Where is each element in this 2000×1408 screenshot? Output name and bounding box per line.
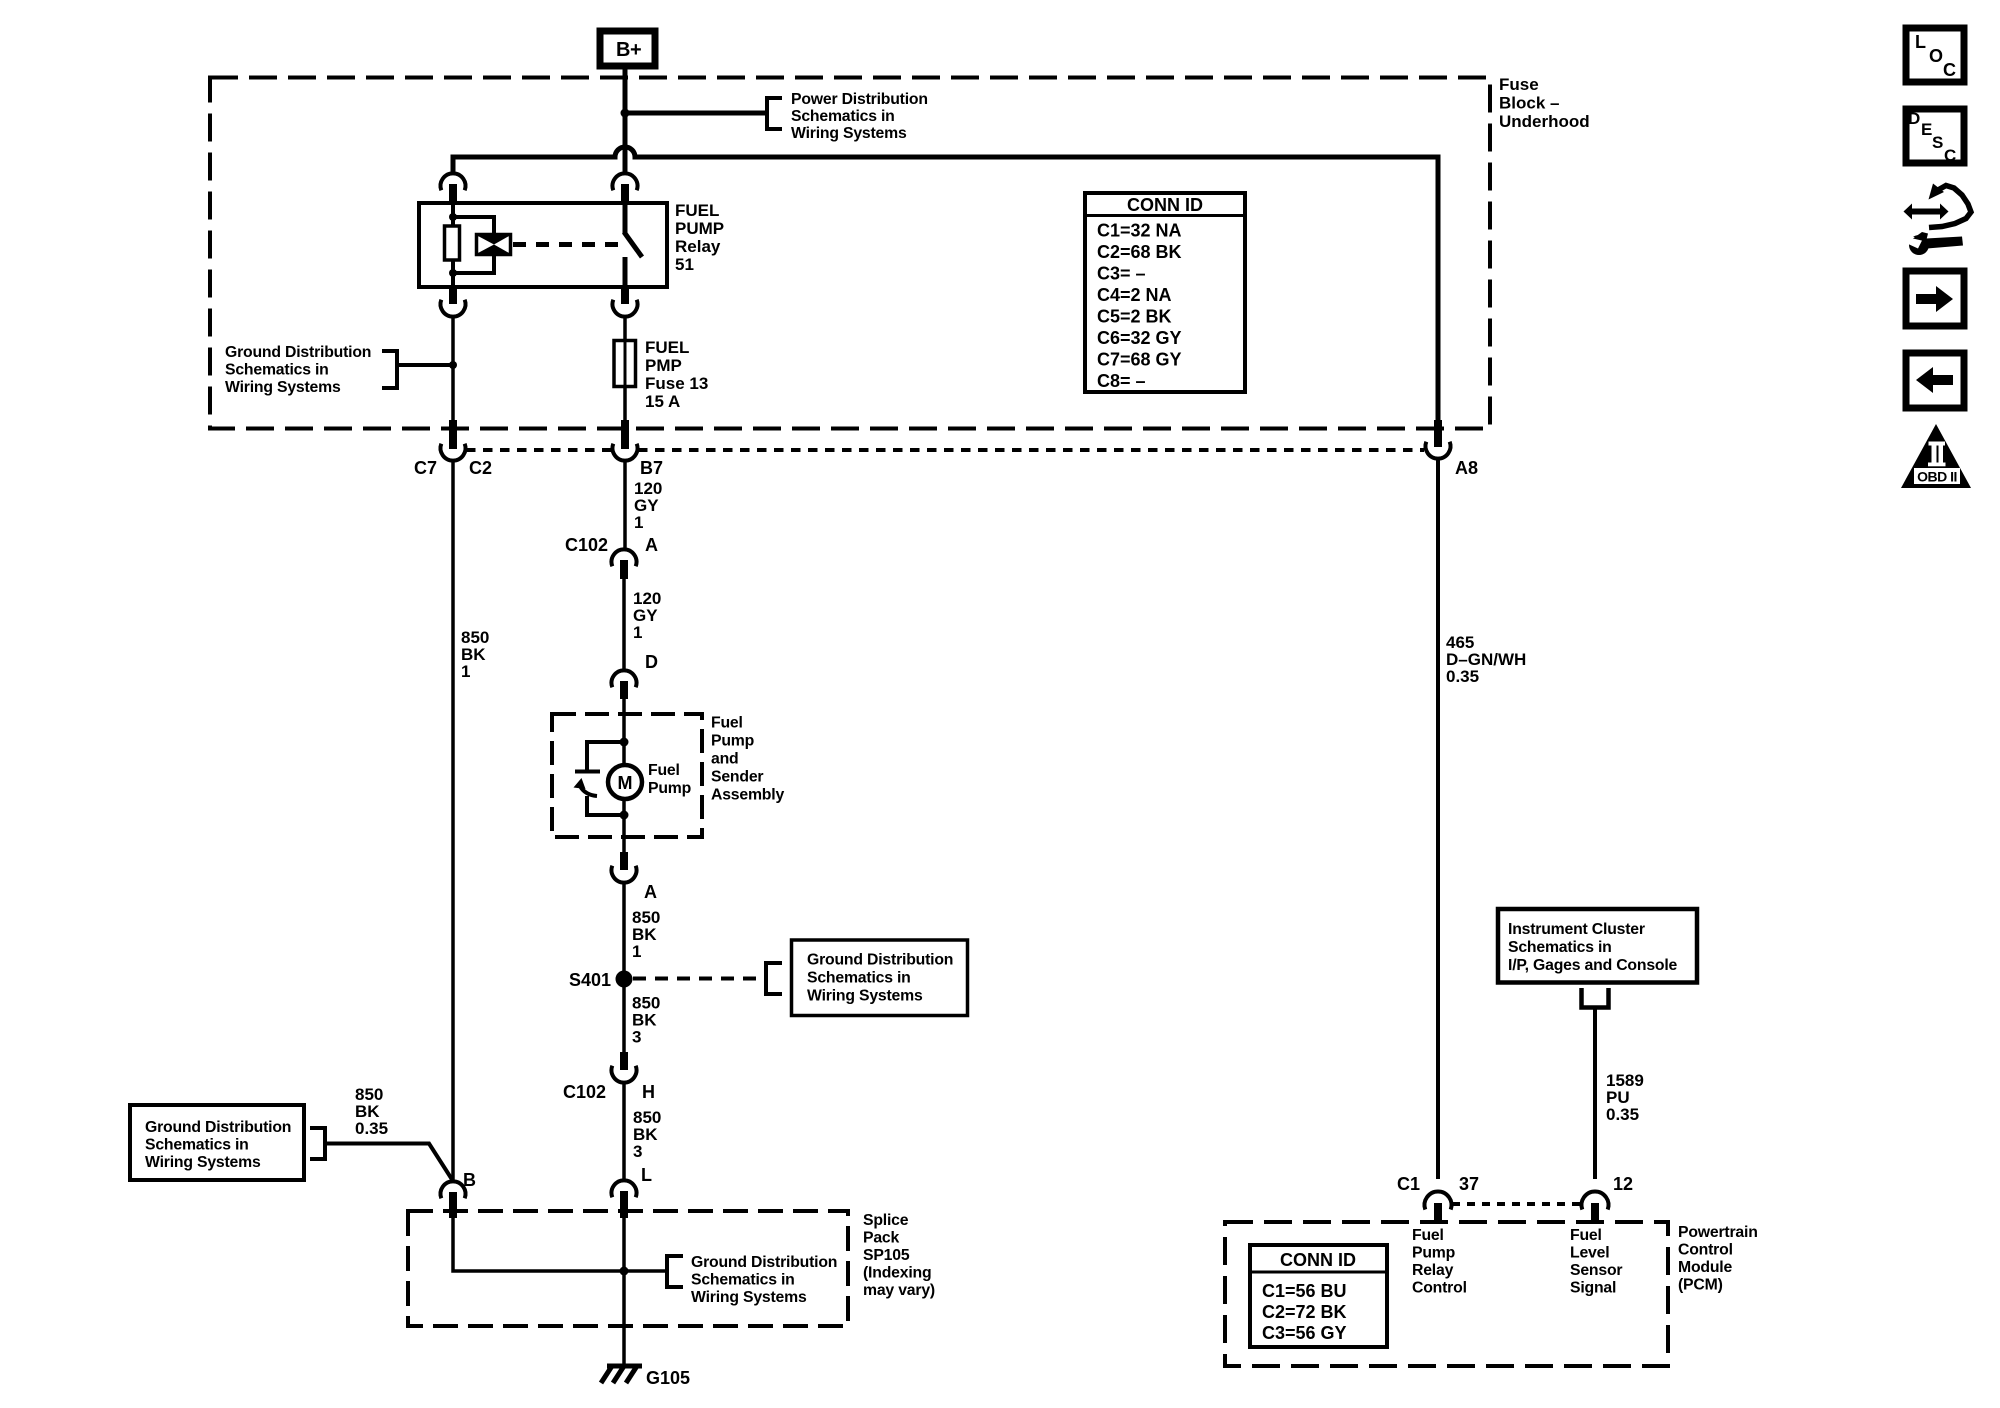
node ground distribution tap (449, 361, 457, 369)
ground G105 symbol (601, 1366, 642, 1383)
svg-text:Pack: Pack (863, 1230, 900, 1247)
svg-text:Pump: Pump (648, 780, 691, 797)
label 465 D-GN/WH 0.35 (1446, 633, 1526, 686)
svg-text:Fuse: Fuse (1499, 75, 1539, 94)
relay winding box with bowtie (477, 235, 511, 255)
svg-text:S401: S401 (569, 970, 611, 990)
svg-text:A8: A8 (1455, 458, 1478, 478)
connector relay pin 2 top (female arc) (613, 173, 638, 190)
svg-text:C2=72 BK: C2=72 BK (1262, 1302, 1347, 1322)
pin relay coil bottom (449, 287, 457, 304)
svg-text:SP105: SP105 (863, 1247, 910, 1264)
svg-text:may vary): may vary) (863, 1282, 935, 1299)
svg-text:L: L (641, 1165, 652, 1185)
icon forward arrow box (1906, 271, 1964, 326)
label FUEL PUMP Relay 51 (675, 201, 724, 274)
label 850 BK 1 (below A) (632, 908, 660, 961)
box Instrument Cluster (1498, 909, 1697, 983)
label Ground Distribution Schematics in Wiring Systems (S401) (807, 952, 953, 1005)
svg-text:C5=2 BK: C5=2 BK (1097, 307, 1172, 327)
connector D fuel pump (female arc) (612, 670, 637, 687)
fuel pump and sender assembly dashed box (552, 714, 702, 837)
wire relay coil top lead (451, 203, 455, 226)
svg-text:1: 1 (632, 942, 641, 961)
relay switch blade (624, 232, 642, 257)
wire bracket to B connector (325, 1144, 453, 1182)
svg-text:Power Distribution: Power Distribution (791, 91, 928, 108)
svg-text:B7: B7 (640, 458, 663, 478)
svg-text:Schematics in: Schematics in (791, 108, 895, 125)
svg-text:Module: Module (1678, 1259, 1732, 1276)
pin D fuel pump (620, 681, 628, 699)
label 120 GY 1 (lower) (633, 589, 661, 642)
svg-text:Fuel: Fuel (648, 762, 680, 779)
svg-text:A: A (645, 535, 658, 555)
label Ground Distribution Schematics in Wiring Systems (bottom left) (145, 1119, 291, 1171)
svg-text:CONN ID: CONN ID (1280, 1250, 1356, 1270)
label 850 BK 0.35 (355, 1085, 388, 1138)
connector C102-H (female arc) (612, 1066, 637, 1083)
svg-text:51: 51 (675, 255, 694, 274)
svg-text:A: A (644, 882, 657, 902)
svg-text:PMP: PMP (645, 356, 682, 375)
wire C102-H to L (622, 1083, 626, 1181)
svg-text:FUEL: FUEL (645, 338, 689, 357)
pin 12 PCM (1591, 1203, 1599, 1224)
wire main horizontal B+ bus with hop over vertical (453, 147, 1438, 421)
connector C7/C2 (female arc) (441, 444, 466, 461)
pin A sender assembly (620, 852, 628, 870)
CONN ID table PCM (1250, 1245, 1387, 1347)
label Instrument Cluster Schematics in I/P Gages and Console (1508, 921, 1678, 974)
label 850 BK 3 (below S401) (632, 994, 660, 1047)
label Fuel Pump (648, 762, 691, 797)
pin relay switch top (621, 184, 629, 203)
svg-text:PUMP: PUMP (675, 219, 724, 238)
wire to ground distribution bracket (397, 363, 453, 367)
pin B7 (621, 420, 629, 449)
bracket S401 ground distribution (766, 963, 782, 994)
svg-text:C2: C2 (469, 458, 492, 478)
capacitor plate (575, 770, 600, 774)
svg-text:Block –: Block – (1499, 94, 1559, 113)
connector A8 (female arc) (1425, 442, 1450, 459)
label 850 BK 3 (above L) (633, 1108, 661, 1161)
svg-text:Level: Level (1570, 1245, 1609, 1262)
label Power Distribution Schematics in Wiring Systems (791, 91, 928, 142)
bracket splice pack ground distribution (667, 1256, 683, 1287)
icon LOC box (1906, 28, 1964, 82)
svg-text:and: and (711, 751, 738, 768)
label FUEL PMP Fuse 13 15 A (645, 338, 708, 411)
fuse FUEL PMP Fuse 13 (614, 341, 636, 387)
wire instrument cluster to pin 12 (1593, 1007, 1597, 1179)
motor fuel pump (M) (608, 765, 642, 799)
svg-text:1: 1 (633, 623, 642, 642)
wire dotted connector row left (466, 448, 611, 452)
wire B+ stem (623, 66, 628, 174)
svg-text:Control: Control (1412, 1280, 1467, 1297)
wire through fuse (624, 340, 627, 387)
wire capacitor branch bottom (587, 796, 624, 815)
wire left drop inside fuse block (451, 317, 455, 429)
pin A8 (1434, 420, 1442, 447)
svg-text:C3=56 GY: C3=56 GY (1262, 1323, 1347, 1343)
svg-text:3: 3 (632, 1028, 641, 1047)
wire C102-A to D (622, 579, 626, 670)
svg-text:Ground Distribution: Ground Distribution (145, 1119, 291, 1136)
svg-text:Schematics in: Schematics in (1508, 939, 1612, 956)
svg-text:Underhood: Underhood (1499, 112, 1590, 131)
resistor relay coil (445, 226, 460, 260)
wire switch to fuse (623, 317, 627, 429)
svg-text:FUEL: FUEL (675, 201, 719, 220)
svg-text:C2=68 BK: C2=68 BK (1097, 242, 1182, 262)
svg-text:15 A: 15 A (645, 392, 680, 411)
bracket Power Distribution (767, 98, 782, 129)
svg-text:D: D (1908, 109, 1920, 128)
svg-text:C1=32 NA: C1=32 NA (1097, 221, 1182, 241)
svg-text:C6=32 GY: C6=32 GY (1097, 328, 1182, 348)
label Fuel Pump Relay Control (1412, 1227, 1467, 1297)
svg-text:Wiring Systems: Wiring Systems (145, 1154, 261, 1171)
box Ground Distribution (bottom left) (130, 1105, 304, 1180)
relay box outline (419, 203, 667, 287)
wire L leg through splice pack to ground (622, 1218, 626, 1366)
svg-text:(PCM): (PCM) (1678, 1277, 1723, 1294)
svg-text:G105: G105 (646, 1368, 690, 1388)
wire left branch C2 to B (451, 460, 455, 1181)
svg-text:CONN ID: CONN ID (1127, 195, 1203, 215)
pin C7/C2 (449, 420, 457, 449)
svg-text:OBD II: OBD II (1917, 469, 1957, 485)
B+ power feed symbol (600, 31, 655, 66)
node fuel pump bottom junction (620, 811, 629, 820)
svg-text:37: 37 (1459, 1174, 1479, 1194)
connector B7 (female arc) (613, 444, 638, 461)
svg-text:C3= –: C3= – (1097, 264, 1146, 284)
wire A to S401 (622, 883, 626, 1053)
splice pack SP105 dashed box (408, 1211, 848, 1326)
pin C102-A (620, 560, 628, 579)
svg-text:I/P, Gages and Console: I/P, Gages and Console (1508, 957, 1678, 974)
svg-text:Sender: Sender (711, 769, 763, 786)
svg-text:H: H (642, 1082, 655, 1102)
wire dashed link S401 to bracket (633, 977, 766, 981)
wire capacitor branch top (587, 742, 624, 771)
pin L splice pack (620, 1191, 628, 1218)
icon OBD II triangle (1901, 424, 1971, 488)
svg-text:S: S (1932, 133, 1943, 152)
connector A sender assembly (female arc) (612, 866, 637, 883)
svg-text:O: O (1929, 46, 1943, 66)
svg-text:Signal: Signal (1570, 1280, 1616, 1297)
svg-text:C8= –: C8= – (1097, 371, 1146, 391)
svg-text:Assembly: Assembly (711, 787, 784, 804)
connector B splice pack (female arc) (441, 1181, 466, 1198)
splice S401 (616, 971, 633, 988)
wire relay coil bottom lead (451, 260, 455, 287)
svg-text:Ground Distribution: Ground Distribution (807, 952, 953, 969)
svg-text:Pump: Pump (711, 733, 754, 750)
pin B splice pack (449, 1192, 457, 1218)
svg-text:C: C (1944, 146, 1956, 165)
label Splice Pack SP105 (Indexing may vary) (863, 1212, 935, 1299)
fuse block underhood dashed box (210, 78, 1490, 429)
svg-text:Schematics in: Schematics in (691, 1272, 795, 1289)
connector relay pin 1 bottom (female arc) (441, 300, 466, 317)
svg-text:Schematics in: Schematics in (807, 970, 911, 987)
label Fuel Pump and Sender Assembly (711, 715, 784, 804)
bracket below instrument cluster box (1582, 988, 1609, 1008)
wire relay switch lower contact (623, 257, 628, 287)
wire relay actuator dashed link (513, 242, 618, 247)
bracket Ground Distribution left (382, 351, 397, 388)
label 1589 PU 0.35 (1606, 1071, 1644, 1124)
pin relay coil top (449, 184, 457, 203)
wire dotted connector row right (638, 448, 1424, 452)
connector 12 PCM (female arc) (1581, 1192, 1608, 1210)
svg-text:Fuel: Fuel (1570, 1227, 1602, 1244)
connector C1-37 PCM (female arc) (1425, 1192, 1452, 1210)
connector relay pin 1 top (female arc) (441, 173, 466, 190)
pin C1-37 PCM (1434, 1203, 1442, 1224)
connector L splice pack (female arc) (612, 1180, 637, 1197)
svg-text:Relay: Relay (1412, 1262, 1454, 1279)
svg-text:0.35: 0.35 (1606, 1105, 1639, 1124)
svg-text:Schematics in: Schematics in (225, 362, 329, 379)
capacitor curved plate with arrow (574, 778, 598, 796)
node coil top junction (449, 213, 457, 221)
powertrain control module dashed box (1225, 1222, 1668, 1366)
wire relay switch upper contact (623, 203, 628, 233)
fuse block label (1499, 75, 1590, 131)
svg-text:(Indexing: (Indexing (863, 1265, 931, 1282)
svg-text:Powertrain: Powertrain (1678, 1224, 1758, 1241)
svg-text:B+: B+ (616, 39, 641, 61)
svg-text:M: M (618, 773, 633, 793)
wire branch to Power Distribution bracket (625, 111, 767, 116)
svg-text:Fuse 13: Fuse 13 (645, 374, 708, 393)
bracket bottom left box (310, 1128, 325, 1159)
label Fuel Level Sensor Signal (1570, 1227, 1622, 1297)
svg-text:C102: C102 (565, 535, 608, 555)
connector relay pin 2 bottom (female arc) (613, 300, 638, 317)
svg-text:Pump: Pump (1412, 1245, 1455, 1262)
svg-text:C4=2 NA: C4=2 NA (1097, 285, 1172, 305)
label Powertrain Control Module (PCM) (1678, 1224, 1758, 1294)
svg-text:E: E (1921, 120, 1932, 139)
wire A8 drop to PCM (1436, 459, 1440, 1180)
wire D to fuel pump (622, 699, 626, 765)
svg-text:Ground Distribution: Ground Distribution (225, 344, 371, 361)
label 120 GY 1 (upper) (634, 479, 662, 532)
svg-text:0.35: 0.35 (1446, 667, 1479, 686)
svg-text:Wiring Systems: Wiring Systems (807, 988, 923, 1005)
wire B leg inside splice pack (453, 1218, 624, 1271)
connector C102-A (female arc) (612, 549, 637, 566)
svg-text:Fuel: Fuel (711, 715, 743, 732)
icon diagnostic wrench with arrows (1904, 184, 1972, 256)
svg-text:Schematics in: Schematics in (145, 1137, 249, 1154)
wire dotted link C1-37 to 12 (1452, 1202, 1581, 1206)
svg-text:Wiring Systems: Wiring Systems (225, 379, 341, 396)
label 850 BK 1 (left branch) (461, 628, 489, 681)
svg-text:Ground Distribution: Ground Distribution (691, 1254, 837, 1271)
svg-text:1: 1 (461, 662, 470, 681)
svg-text:C7=68 GY: C7=68 GY (1097, 350, 1182, 370)
node junction at B+ branch (621, 109, 630, 118)
svg-text:C7: C7 (414, 458, 437, 478)
CONN ID table fuse block (1085, 193, 1245, 392)
svg-text:Sensor: Sensor (1570, 1262, 1622, 1279)
svg-text:0.35: 0.35 (355, 1119, 388, 1138)
svg-text:Instrument Cluster: Instrument Cluster (1508, 921, 1645, 938)
wire B7 to C102-A (623, 460, 627, 550)
pin C102-H (620, 1052, 628, 1070)
node splice junction (620, 1267, 629, 1276)
box Ground Distribution (S401) (792, 940, 968, 1016)
svg-text:L: L (1915, 32, 1926, 52)
svg-text:C102: C102 (563, 1082, 606, 1102)
node fuel pump top junction (620, 738, 629, 747)
svg-text:Relay: Relay (675, 237, 721, 256)
svg-text:C1: C1 (1397, 1174, 1420, 1194)
icon DESC box (1906, 109, 1964, 165)
svg-text:C: C (1943, 60, 1956, 80)
svg-text:12: 12 (1613, 1174, 1633, 1194)
svg-text:Fuel: Fuel (1412, 1227, 1444, 1244)
svg-text:C1=56 BU: C1=56 BU (1262, 1281, 1347, 1301)
svg-text:3: 3 (633, 1142, 642, 1161)
svg-text:Wiring Systems: Wiring Systems (691, 1289, 807, 1306)
svg-text:1: 1 (634, 513, 643, 532)
svg-text:D: D (645, 652, 658, 672)
svg-text:Control: Control (1678, 1242, 1733, 1259)
svg-text:Wiring Systems: Wiring Systems (791, 125, 907, 142)
wire coil parallel loop (453, 217, 494, 273)
wire fuel pump to connector A (622, 799, 626, 852)
node coil bottom junction (449, 269, 457, 277)
wire splice to bracket (624, 1269, 667, 1273)
label Ground Distribution Schematics in Wiring Systems (splice pack) (691, 1254, 837, 1306)
svg-text:Splice: Splice (863, 1212, 909, 1229)
pin relay switch bottom (621, 287, 629, 304)
icon back arrow box (1906, 353, 1964, 408)
label Ground Distribution Schematics in Wiring Systems (left) (225, 344, 371, 396)
